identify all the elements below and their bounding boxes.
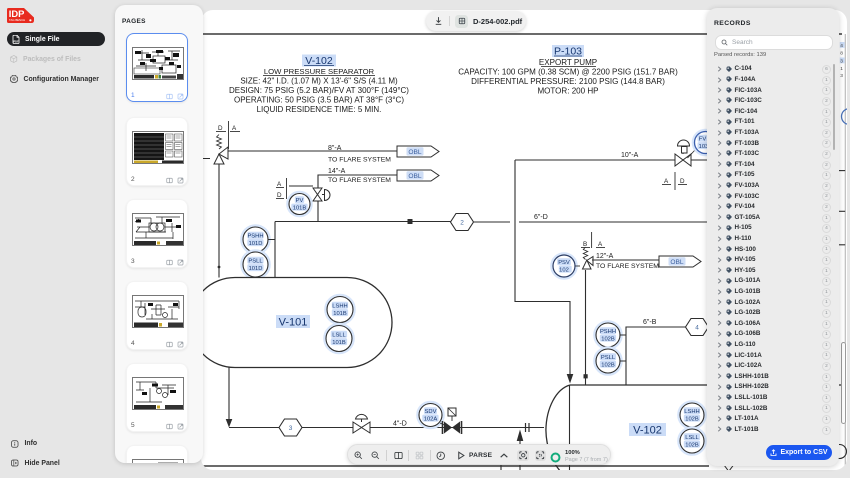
edge stub line left	[201, 158, 210, 160]
file pill	[426, 11, 526, 31]
control valve FV	[675, 140, 691, 166]
svg-text:14"-A: 14"-A	[328, 168, 346, 175]
svg-text:6"-D: 6"-D	[534, 214, 548, 221]
toolbar	[347, 444, 611, 465]
wire right of FV	[691, 159, 782, 161]
sheet right border	[844, 34, 846, 466]
node hexagon 3	[279, 419, 302, 436]
svg-text:TO FLARE SYSTEM: TO FLARE SYSTEM	[596, 263, 659, 270]
records scrollbar	[833, 64, 835, 150]
svg-text:8: 8	[840, 51, 843, 57]
svg-text:102B: 102B	[601, 337, 615, 343]
svg-text:101B: 101B	[293, 206, 307, 212]
instrument PSLL 101D	[241, 250, 269, 278]
svg-text:D: D	[218, 125, 223, 132]
sliver revision circle (blue)	[842, 109, 850, 125]
10"-A wire	[515, 159, 675, 161]
relief valve spring	[217, 135, 222, 150]
svg-text:CAPACITY: 100 GPM (0.38 SCM) @: CAPACITY: 100 GPM (0.38 SCM) @ 2200 PSIG…	[458, 68, 678, 77]
svg-text:OBL: OBL	[408, 173, 422, 180]
Info	[11, 439, 91, 448]
svg-text:TO FLARE SYSTEM: TO FLARE SYSTEM	[328, 157, 391, 164]
svg-text:LOW PRESSURE SEPARATOR: LOW PRESSURE SEPARATOR	[264, 67, 375, 76]
svg-text:LSLL: LSLL	[685, 435, 699, 441]
svg-text:PSHH: PSHH	[247, 234, 263, 240]
Hide Panel	[11, 459, 101, 468]
zone marker A|D (right)	[662, 172, 687, 190]
svg-text:DIFFERENTIAL PRESSURE: 2100 PS: DIFFERENTIAL PRESSURE: 2100 PSIG (144.8 …	[471, 77, 665, 86]
main header wire y221.5	[275, 221, 451, 223]
sliver line ticks	[839, 170, 846, 172]
export button	[766, 445, 832, 460]
V-101 outlet wire with arrow	[228, 367, 230, 420]
svg-text:4"-D: 4"-D	[393, 421, 407, 428]
svg-text:A: A	[277, 181, 282, 188]
records panel	[707, 8, 839, 466]
P-103 title block text	[458, 45, 678, 96]
left sidebar	[0, 0, 115, 478]
svg-text:FV: FV	[699, 137, 707, 143]
instrument PSHH 101D	[241, 225, 269, 253]
svg-text:4: 4	[695, 325, 699, 332]
instrument LSHH 101B	[325, 295, 354, 324]
svg-text:10"-A: 10"-A	[621, 152, 639, 159]
svg-text:A: A	[232, 125, 237, 132]
svg-text:PSHH: PSHH	[600, 329, 616, 335]
sheet bottom border line	[201, 465, 709, 467]
svg-text:3: 3	[840, 73, 843, 79]
svg-text:PV: PV	[296, 198, 304, 204]
node hexagon 2	[451, 214, 474, 231]
canvas vertical scrollbar	[841, 342, 846, 424]
svg-text:102: 102	[559, 268, 569, 274]
pages panel	[115, 5, 203, 463]
svg-text:102B: 102B	[601, 363, 615, 369]
svg-text:102B: 102B	[685, 417, 699, 423]
pump symbol stubs below records panel	[724, 465, 729, 471]
OBL flag 2	[397, 170, 439, 181]
svg-text:A: A	[664, 178, 669, 185]
svg-text:LSHH: LSHH	[684, 409, 699, 415]
pump discharge wire with up arrow	[519, 440, 521, 470]
Single File (selected)	[7, 32, 105, 46]
svg-text:SDV: SDV	[425, 409, 437, 415]
wire to PV valve	[289, 185, 313, 187]
search box	[715, 35, 833, 50]
svg-text:D: D	[277, 192, 282, 199]
instrument LSHH 102B	[678, 401, 705, 428]
12"-A flare wire	[592, 259, 659, 261]
right sliver marks (drawing frame notes)	[840, 42, 845, 79]
svg-text:8"-A: 8"-A	[328, 145, 342, 152]
14"-A flare line (wire)	[318, 175, 397, 188]
svg-text:101B: 101B	[332, 340, 346, 346]
instrument PSV 102	[551, 253, 576, 278]
svg-text:V-101: V-101	[279, 317, 308, 329]
svg-text:6"-B: 6"-B	[643, 319, 657, 326]
instrument PSLL 102B	[594, 347, 621, 374]
svg-text:101D: 101D	[249, 266, 263, 272]
control valve PV-101B body	[313, 188, 330, 201]
svg-text:3: 3	[289, 425, 293, 432]
svg-text:101D: 101D	[249, 241, 263, 247]
Configuration Manager	[10, 75, 115, 84]
OBL flag 3	[659, 256, 701, 267]
wire hexagon2 to riser	[474, 221, 511, 223]
spectacle blind	[525, 423, 527, 432]
shutdown gate valve (filled)	[442, 421, 444, 434]
V-102 title block text	[229, 55, 409, 115]
PSV inlet wire	[585, 270, 587, 385]
svg-text:SIZE: 42" I.D. (1.07 M) X 13'-: SIZE: 42" I.D. (1.07 M) X 13'-6" S/S (4.…	[240, 77, 398, 86]
bottom process wire y427.5	[229, 427, 544, 429]
svg-text:PSLL: PSLL	[601, 355, 616, 361]
junction dot	[218, 266, 221, 269]
svg-text:PSLL: PSLL	[248, 259, 263, 265]
svg-text:EXPORT PUMP: EXPORT PUMP	[539, 58, 597, 67]
svg-text:A: A	[598, 241, 603, 248]
svg-text:4: 4	[840, 43, 843, 49]
inline fitting square	[408, 219, 413, 224]
svg-text:PDF: PDF	[14, 40, 19, 43]
svg-text:DESIGN: 75 PSIG (5.2 BAR)/FV A: DESIGN: 75 PSIG (5.2 BAR)/FV AT 300°F (1…	[229, 86, 409, 95]
PV valve outlet wire	[317, 201, 319, 222]
relief valve PSV (V-101 flare)	[214, 147, 228, 164]
left instrument riser (wire)	[274, 222, 276, 278]
svg-text:MOTOR: 200 HP: MOTOR: 200 HP	[537, 87, 598, 96]
8"-A flare line (wire)	[228, 150, 397, 152]
svg-text:LSHH: LSHH	[332, 304, 347, 310]
sliver circle near bottom	[833, 445, 847, 459]
svg-text:1: 1	[840, 66, 843, 72]
Packages of Files (disabled)	[10, 55, 110, 64]
instrument LSLL 101B	[324, 324, 353, 353]
svg-text:LIQUID RESIDENCE TIME: 5 MIN.: LIQUID RESIDENCE TIME: 5 MIN.	[257, 105, 382, 114]
svg-text:TO FLARE SYSTEM: TO FLARE SYSTEM	[328, 177, 391, 184]
vessel V-101	[190, 278, 392, 368]
instrument PSHH 102B	[594, 321, 621, 348]
V-102 dip tube	[569, 385, 571, 470]
V-101 label	[276, 315, 310, 328]
svg-text:D: D	[680, 178, 685, 185]
svg-text:102A: 102A	[424, 417, 438, 423]
svg-text:OPERATING: 50 PSIG (3.5 BAR) A: OPERATING: 50 PSIG (3.5 BAR) AT 38°F (3°…	[234, 96, 404, 105]
svg-text:2: 2	[460, 220, 464, 227]
svg-text:OBL: OBL	[408, 149, 422, 156]
zone marker A/D (by PV valve)	[276, 178, 287, 199]
instrument SDV 102A	[417, 402, 443, 428]
svg-text:OBL: OBL	[670, 259, 684, 266]
instrument PV 101B	[287, 192, 311, 216]
instrument FV 103	[693, 130, 718, 155]
relief valve V-102	[583, 257, 594, 270]
svg-text:PSV: PSV	[558, 260, 570, 266]
svg-text:V-102: V-102	[633, 425, 662, 437]
instrument LSLL 102B	[678, 427, 705, 454]
V-101 flare riser (vertical wire)	[218, 164, 220, 278]
V-102 label	[629, 423, 666, 436]
svg-text:LSLL: LSLL	[332, 333, 346, 339]
IDP logo	[7, 8, 34, 23]
zone marker D|A top left	[216, 121, 240, 149]
vessel V-102 shell	[570, 384, 841, 386]
svg-text:12"-A: 12"-A	[596, 253, 614, 260]
solenoid box	[448, 408, 456, 416]
zone marker B|A	[581, 232, 605, 248]
svg-text:101B: 101B	[333, 311, 347, 317]
main white canvas with P&ID	[201, 10, 847, 470]
diaphragm control valve (4"-D line)	[353, 414, 370, 433]
riser x515 (wire)	[515, 160, 570, 375]
svg-text:102B: 102B	[685, 443, 699, 449]
stub below toolbar	[500, 465, 502, 470]
6"-D wire	[519, 221, 782, 223]
node hexagon 4	[686, 319, 709, 336]
svg-text:3: 3	[840, 58, 843, 64]
svg-text:TAG BENCH: TAG BENCH	[9, 18, 25, 22]
OBL flag 1	[397, 146, 439, 157]
6"-B riser wire	[626, 327, 686, 385]
sheet top border line	[201, 33, 842, 35]
